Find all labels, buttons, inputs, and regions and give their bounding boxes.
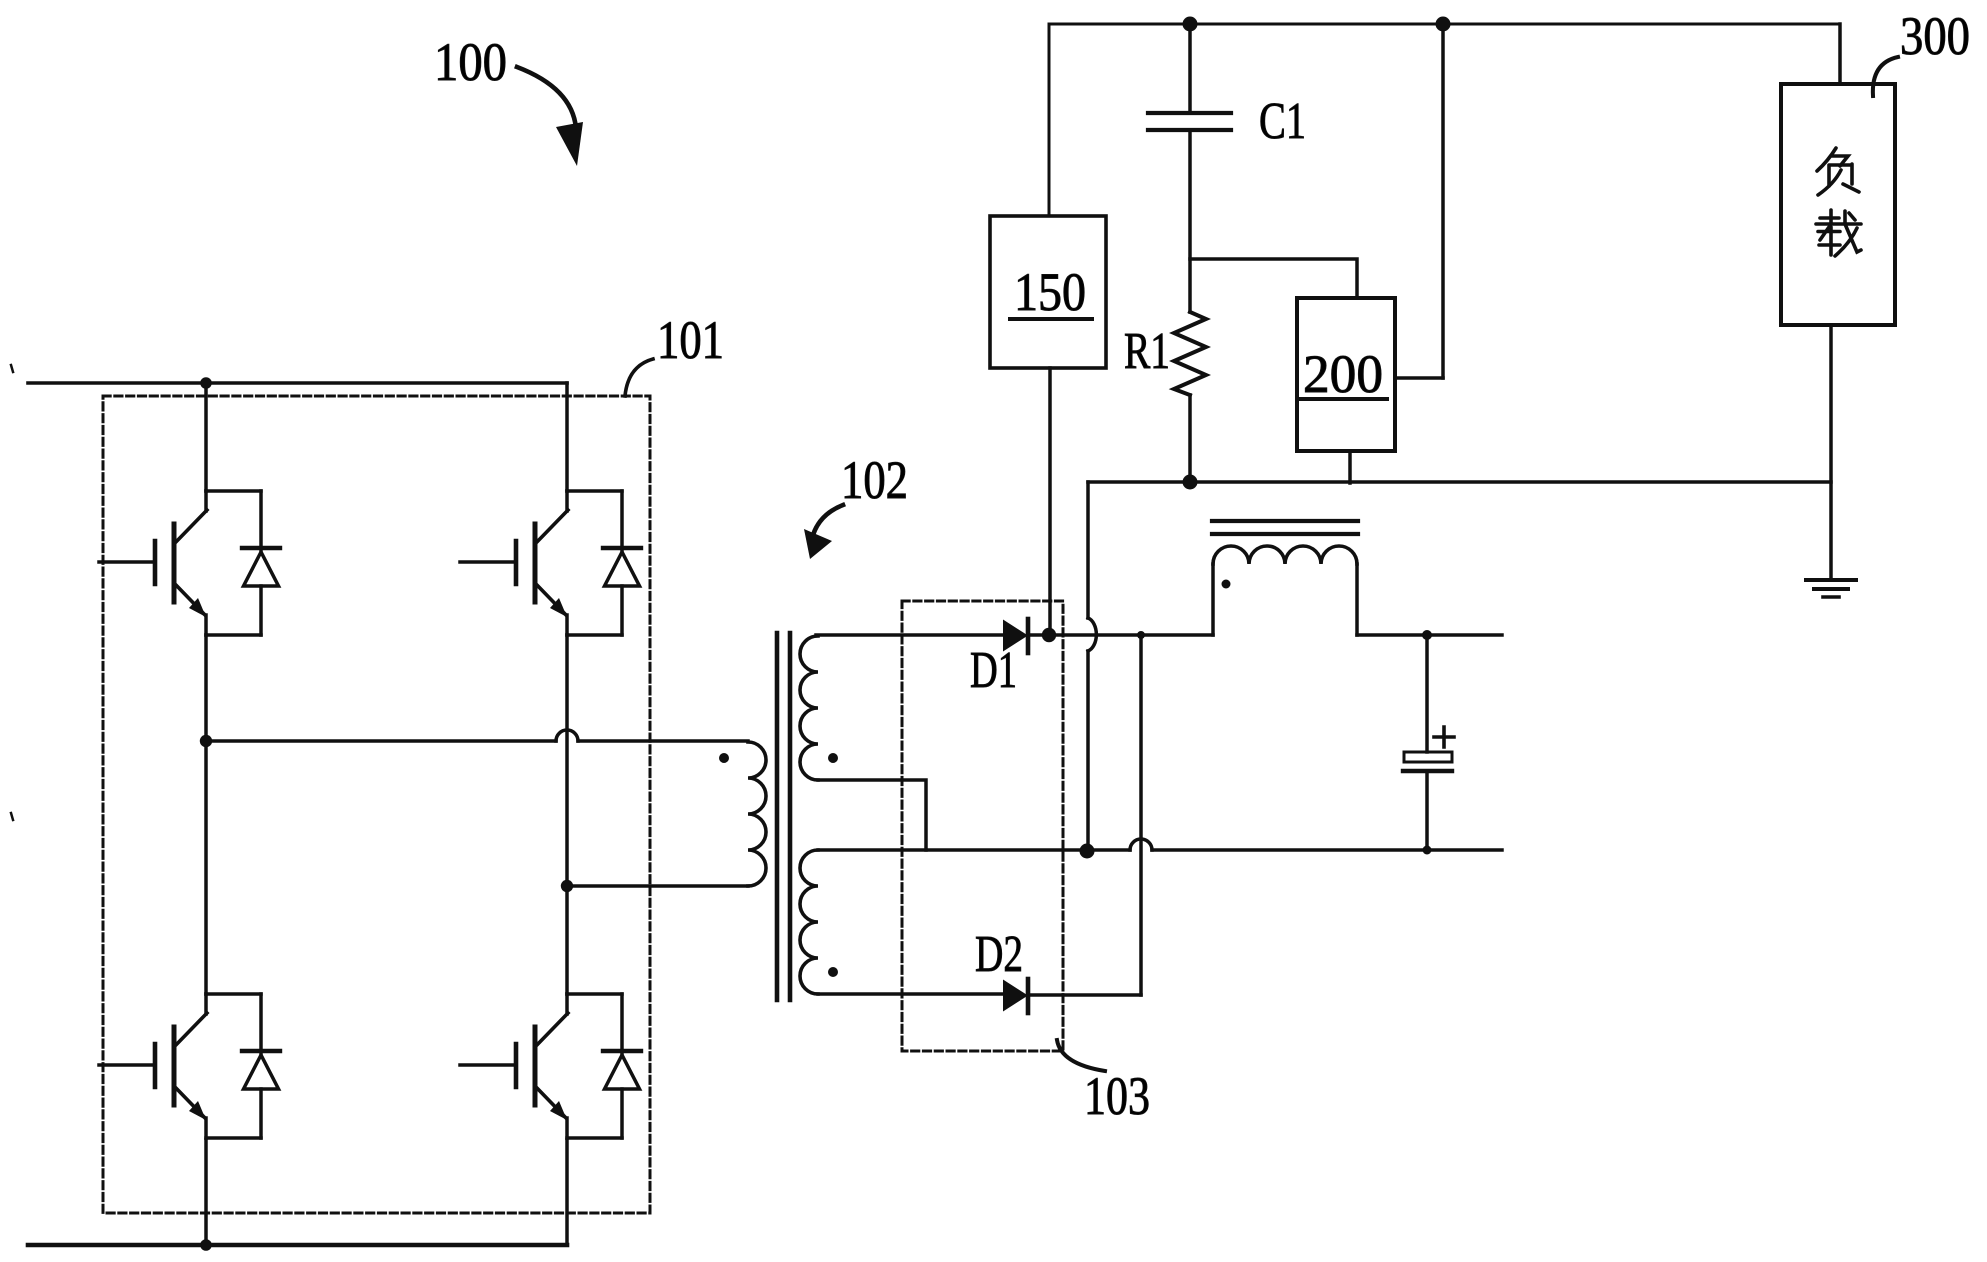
text: load character 2 (zai) [1816, 210, 1861, 256]
label 200 underline [1299, 397, 1387, 401]
leader arrow for label 100 [517, 67, 583, 166]
wire: top feedback rail y=24 [1049, 23, 1840, 26]
node: left leg / bottom rail junction [200, 1239, 212, 1251]
wire: capacitor bottom lead [1425, 771, 1429, 850]
capacitor C2 negative plate [1403, 769, 1452, 773]
text: load character 1 (fu) [1817, 148, 1859, 195]
transformer T1 primary polarity dot [719, 753, 729, 763]
transformer T1 secondary winding 2 (bottom) [800, 850, 818, 994]
node: output capacitor bottom junction [1423, 846, 1432, 855]
capacitor C2 (output electrolytic) positive plate [1404, 752, 1452, 762]
node: rail / C1 junction [1183, 17, 1198, 32]
diode: Q2 anti-parallel diode [603, 491, 641, 635]
transformer T1 secondary 1 polarity dot [828, 753, 838, 763]
leader arc for label 101 [625, 359, 653, 396]
transistor Q4 (lower-right IGBT) [460, 994, 622, 1138]
node: top line / capacitor junction [1422, 630, 1432, 640]
transistor Q3 (lower-left IGBT) [99, 994, 261, 1138]
block 300: load box [1781, 84, 1895, 325]
wire: DC bus positive rail (top-left) [28, 381, 567, 385]
wire: crossover hop of sense line over top output line [1088, 618, 1096, 651]
wire: riser from block 200 to top rail [1441, 24, 1445, 378]
wire: vertical sense line x=1088 (hops over top output line) [1086, 482, 1090, 851]
diode: Q3 anti-parallel diode [242, 994, 280, 1138]
svg-text:C1: C1 [1259, 93, 1306, 150]
wire: midpoint A to transformer primary top (hops over right leg) [206, 739, 748, 743]
resistor R1 (zigzag) [1174, 312, 1206, 395]
diode: Q4 anti-parallel diode [603, 994, 641, 1138]
stray mark (scan artifact) left edge bottom [11, 813, 13, 820]
transistor Q1 (upper-left IGBT) [99, 491, 261, 635]
svg-text:103: 103 [1084, 1066, 1150, 1126]
svg-text:100: 100 [434, 32, 507, 92]
wire: return line y=482 to load ground [1088, 480, 1831, 484]
wire: block 200 right lead to rail riser [1395, 376, 1443, 380]
node: D2 riser joins top output line [1137, 631, 1145, 639]
diode D2 (rectifier, filled) [1003, 979, 1028, 1013]
ground symbol [1806, 580, 1856, 597]
wire: block 150 bottom lead down to D1 cathode node [1048, 368, 1052, 635]
transformer T1 secondary 2 polarity dot [828, 967, 838, 977]
wire: rectified top output line y=635 [1028, 633, 1502, 637]
inductor L1 polarity dot [1222, 580, 1231, 589]
svg-text:102: 102 [841, 450, 908, 510]
wire: right bridge leg upper segment [565, 383, 569, 491]
transformer T1 primary winding [748, 742, 766, 886]
wire: D2 riser up to top output line (passes hop on center line) [1139, 635, 1143, 995]
wire: left leg lower segment [204, 1140, 208, 1245]
inductor L1 winding [1213, 546, 1357, 564]
inductor L1 core bar lower [1212, 532, 1358, 536]
node: R1 / ground-line junction [1183, 475, 1198, 490]
stray mark (scan artifact) left edge top [11, 365, 13, 372]
node: left leg / top rail junction [200, 377, 212, 389]
capacitor C1 top plate [1148, 111, 1231, 115]
wire: block 200 bottom lead [1348, 451, 1352, 483]
wire: right leg middle segment [565, 635, 569, 994]
wire: left bridge leg upper segment [204, 383, 208, 491]
diode D1 (rectifier, filled) [1003, 619, 1028, 653]
svg-text:101: 101 [657, 310, 724, 370]
wire: crossover hop over right bridge leg [556, 730, 578, 741]
svg-text:R1: R1 [1124, 323, 1170, 380]
wire: riser from rail to block 150 [1048, 24, 1051, 216]
dashed enclosure box 101 (full-bridge inverter) [103, 396, 650, 1213]
wire: secondary 1 bottom lead to center tap [818, 780, 926, 850]
svg-text:150: 150 [1014, 262, 1086, 322]
leader arrow for label 102 [804, 505, 843, 559]
wire: capacitor top lead [1425, 635, 1429, 752]
dashed enclosure box 103 (rectifier) [902, 601, 1063, 1051]
node: rail / 200 riser junction [1436, 17, 1451, 32]
wire: D2 cathode lead [1028, 993, 1141, 997]
node A: left leg midpoint junction [200, 735, 212, 747]
wire: secondary 1 top lead to D1 anode [816, 633, 1003, 637]
block 200 (controller box) [1297, 298, 1395, 451]
wire: center-tap / bottom output line y=850 (hops over D2 riser) [818, 848, 1502, 852]
node B: right leg midpoint junction [561, 880, 573, 892]
node: D1 cathode / 150-sense junction [1042, 628, 1056, 642]
svg-text:D1: D1 [970, 642, 1017, 699]
transformer T1 secondary winding 1 (top) [800, 636, 818, 780]
wire: branch from C1/R1 node to block 200 top [1190, 259, 1357, 298]
leader arc for label 300 [1873, 57, 1898, 96]
wire: crossover hop of bottom line over D2 riser [1130, 839, 1152, 850]
wire: left leg middle segment [204, 635, 208, 994]
transformer T1 core (left bar) [775, 633, 780, 1000]
svg-text:300: 300 [1900, 6, 1970, 66]
wire: R1 bottom lead [1188, 395, 1192, 482]
wire: inductor left leg [1211, 564, 1215, 635]
wire: load bottom lead to ground [1829, 325, 1833, 580]
capacitor C1 bottom plate [1148, 128, 1231, 132]
wire: C1 bottom lead to R1 [1188, 130, 1192, 312]
label 150 underline [1010, 317, 1092, 321]
svg-text:200: 200 [1303, 344, 1383, 404]
wire: inductor right leg [1355, 564, 1359, 635]
block 150 (controller box) [990, 216, 1106, 368]
leader arc for label 103 [1057, 1040, 1105, 1071]
node: sense-line junction on bottom output line [1080, 844, 1095, 859]
wire: DC bus negative rail (bottom-left) [28, 1243, 567, 1248]
svg-text:D2: D2 [975, 926, 1023, 983]
transistor Q2 (upper-right IGBT) [460, 491, 622, 635]
inductor L1 core bar upper [1212, 519, 1358, 523]
wire: midpoint B to transformer primary bottom [567, 884, 748, 888]
wire: secondary 2 bottom lead to D2 anode [818, 992, 1003, 996]
wire: right leg lower segment [565, 1140, 569, 1245]
wire: riser from rail to load box [1838, 24, 1842, 84]
wire: C1 top lead [1188, 24, 1192, 113]
capacitor C2 plus sign [1434, 727, 1454, 747]
diode: Q1 anti-parallel diode [242, 491, 280, 635]
transformer T1 core (right bar) [788, 633, 793, 1000]
